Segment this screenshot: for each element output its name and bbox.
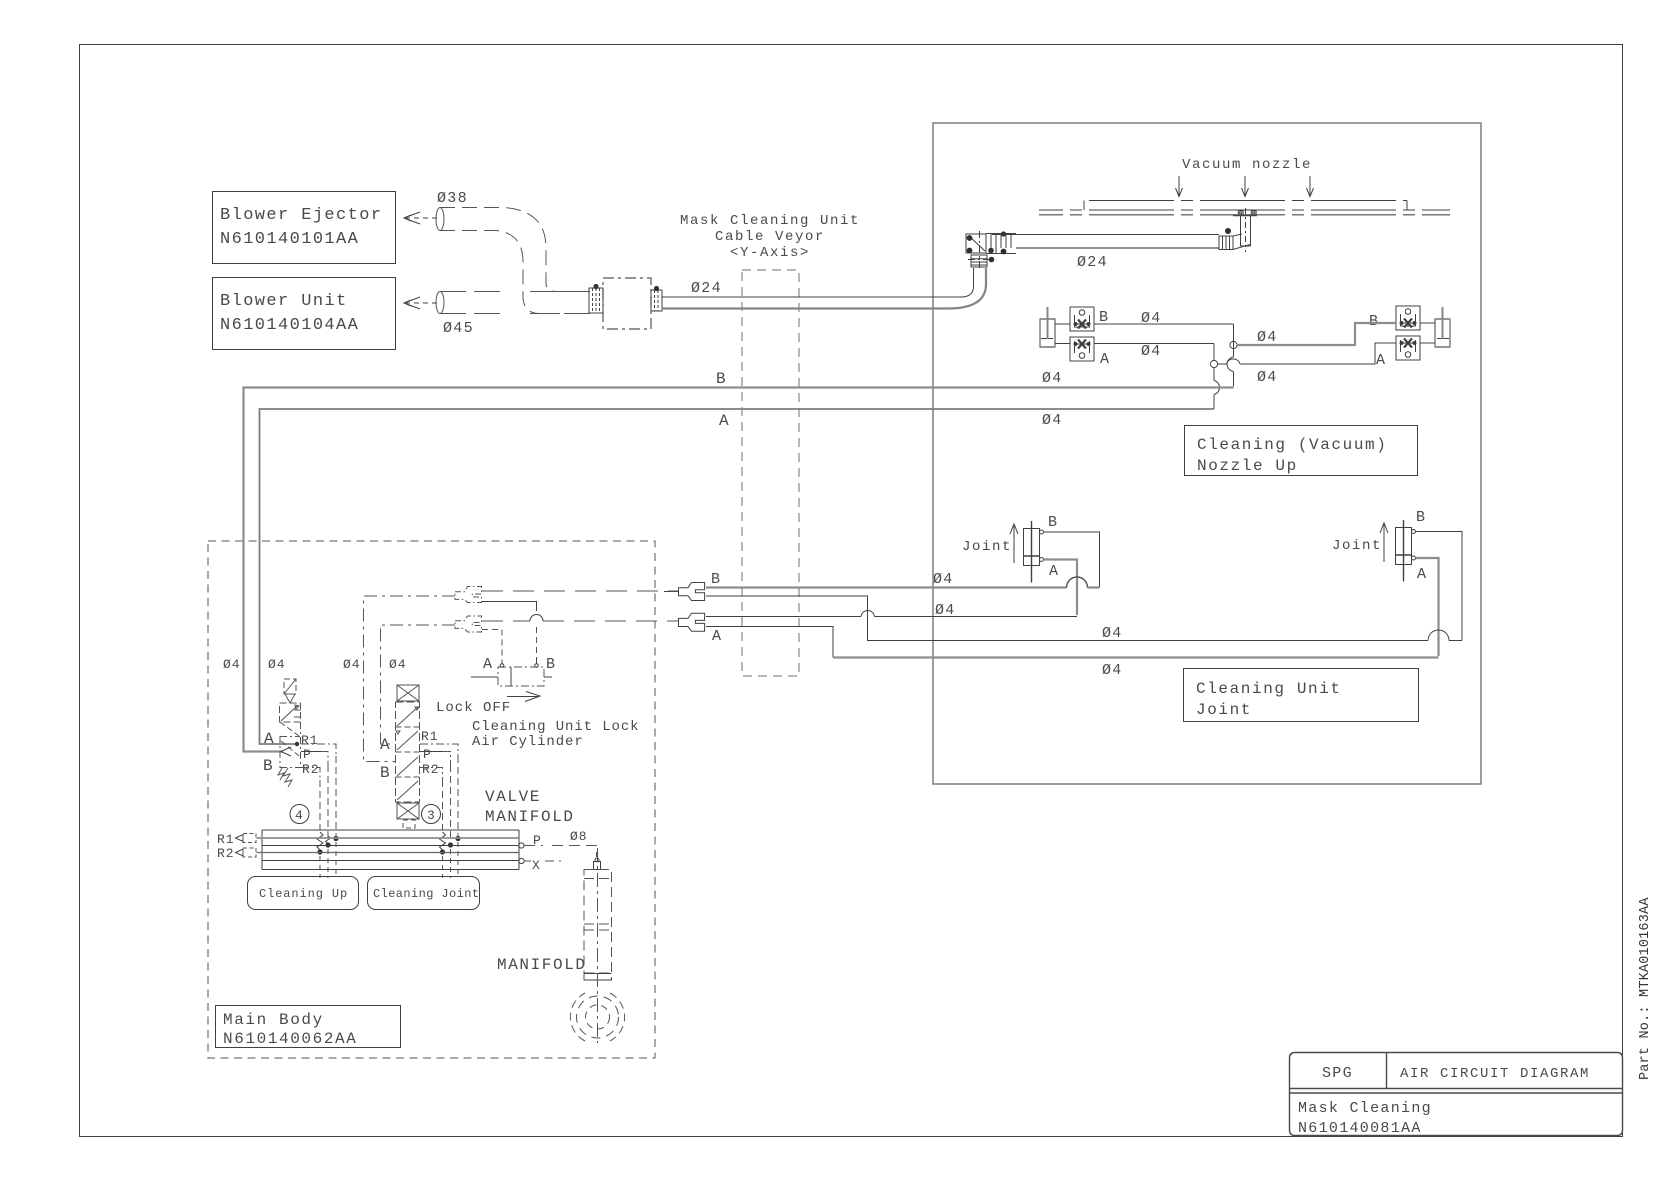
arrow to blower unit (406, 302, 437, 304)
hop of A link over B vertical (1227, 359, 1241, 364)
D4 link to right A controller (1218, 343, 1396, 364)
svg-text:Ø4: Ø4 (268, 657, 286, 672)
bus B (thick) (244, 388, 1234, 752)
wire B-left controller to bus (1094, 324, 1234, 387)
node at valve4 A (295, 742, 299, 746)
svg-text:R2: R2 (217, 846, 235, 861)
svg-text:Ø4: Ø4 (343, 657, 361, 672)
lock direction arrow (507, 692, 540, 702)
svg-text:N610140081AA: N610140081AA (1298, 1120, 1422, 1137)
node on B link (1230, 341, 1237, 348)
svg-text:Cable Veyor: Cable Veyor (715, 229, 825, 245)
svg-text:A: A (483, 656, 493, 673)
Cleaning Up label box (248, 877, 359, 910)
svg-text:AIR CIRCUIT DIAGRAM: AIR CIRCUIT DIAGRAM (1400, 1066, 1590, 1082)
joint1 up arrow (1010, 524, 1018, 563)
Cleaning Unit Joint label box (1184, 669, 1419, 722)
speed controller B left (1070, 307, 1094, 331)
wire A-left controller to bus (1094, 344, 1214, 410)
svg-text:4: 4 (295, 808, 304, 823)
svg-text:Ø4: Ø4 (389, 657, 407, 672)
svg-text:Ø45: Ø45 (443, 320, 474, 337)
P tube dash to manifold assy (524, 846, 597, 858)
svg-text:Part No.: MTKA010163AA: Part No.: MTKA010163AA (1638, 897, 1653, 1080)
svg-text:R1: R1 (301, 733, 319, 748)
Cleaning Joint label box (368, 877, 480, 910)
svg-text:Ø24: Ø24 (691, 280, 722, 297)
svg-text:Air Cylinder: Air Cylinder (472, 734, 584, 750)
valve4 B port dashdot (280, 767, 300, 769)
svg-text:Mask Cleaning Unit: Mask Cleaning Unit (680, 213, 860, 229)
joint2 B wire (1416, 532, 1463, 641)
svg-text:A: A (1417, 566, 1427, 583)
blower ejector hose D38 (436, 208, 444, 231)
svg-text:N610140062AA: N610140062AA (223, 1030, 357, 1048)
svg-text:Joint: Joint (1332, 538, 1382, 554)
circled 3 (422, 805, 441, 824)
X port (519, 858, 524, 863)
lock cylinder A line (482, 630, 502, 665)
cable veyor dash-dot rectangle (742, 270, 799, 676)
manifold mount circles (577, 996, 619, 1038)
muffler R2 (236, 849, 244, 856)
manifold stubs below valve4 (320, 842, 336, 878)
svg-text:A: A (380, 736, 391, 754)
svg-text:Ø4: Ø4 (935, 602, 956, 619)
speed controller A right (1396, 336, 1420, 360)
Cleaning (Vacuum) Nozzle Up label box (1185, 426, 1418, 476)
svg-text:MANIFOLD: MANIFOLD (485, 808, 575, 826)
hop over joint2 A vertical (1428, 630, 1449, 641)
svg-text:Nozzle Up: Nozzle Up (1197, 457, 1298, 475)
node on A link (1210, 360, 1217, 367)
svg-text:Ø4: Ø4 (1042, 370, 1063, 387)
tube valve3-A to fitting2 (381, 625, 456, 744)
joint1 A wire (1044, 560, 1078, 616)
title block (1290, 1053, 1623, 1136)
manifold assy fitting (594, 862, 601, 870)
Blower Ejector label box (213, 192, 396, 264)
nozzle-up cylinder right (1435, 307, 1450, 347)
svg-text:P: P (303, 747, 312, 762)
vacuum nozzle pointer arrows (1176, 176, 1183, 197)
svg-text:Ø8: Ø8 (570, 829, 588, 844)
svg-text:X: X (532, 858, 541, 873)
tube B to joint1 (thick) (706, 586, 1100, 588)
valve4 P line to manifold (301, 751, 321, 753)
svg-text:Cleaning Joint: Cleaning Joint (373, 887, 479, 901)
cylinder stubs right (1420, 323, 1435, 343)
svg-text:Ø4: Ø4 (223, 657, 241, 672)
label Mask Cleaning Unit Cable Veyor (680, 213, 860, 261)
svg-text:Joint: Joint (1196, 701, 1252, 719)
P port (519, 843, 524, 848)
svg-text:P: P (423, 747, 432, 762)
manifold centerline (597, 848, 599, 1043)
valve3 P line to manifold (420, 751, 443, 753)
svg-text:R2: R2 (422, 762, 440, 777)
Main Body label box (216, 1006, 401, 1048)
svg-text:B: B (1416, 509, 1426, 526)
junction left fitting (589, 288, 603, 313)
lock cylinder B line (482, 602, 537, 612)
valve3 R2 line to manifold (420, 768, 443, 781)
svg-text:B: B (1048, 514, 1058, 531)
svg-text:R1: R1 (217, 832, 235, 847)
svg-text:B: B (1369, 313, 1379, 330)
svg-text:B: B (1099, 309, 1109, 326)
svg-text:B: B (711, 571, 721, 588)
svg-text:Cleaning (Vacuum): Cleaning (Vacuum) (1197, 436, 1387, 454)
hose junction block (603, 278, 651, 329)
arm end fitting (1219, 234, 1250, 250)
svg-text:Blower Ejector: Blower Ejector (220, 206, 382, 225)
cable fitting 2 (dash-dot) (455, 616, 482, 632)
manifold assembly body (584, 870, 612, 981)
speed controller A left (1070, 337, 1094, 361)
main body dashed boundary (208, 541, 655, 1058)
valve4 R1 line to manifold (301, 744, 336, 756)
hop over B bus (1214, 381, 1220, 395)
svg-text:A: A (1376, 352, 1386, 369)
junction right fitting (651, 290, 662, 311)
valve4 A port dashdot (280, 736, 300, 738)
svg-text:R2: R2 (302, 762, 320, 777)
svg-text:B: B (716, 370, 727, 388)
nozzle arm tube (992, 234, 1219, 236)
tube valve3-B to fitting1 (364, 596, 456, 762)
svg-text:Cleaning Unit: Cleaning Unit (1196, 680, 1342, 698)
joint2 up arrow (1380, 523, 1388, 562)
tube B to joint2 (706, 596, 1462, 641)
svg-text:R1: R1 (421, 729, 439, 744)
vacuum nozzle bar (1084, 201, 1407, 211)
svg-text:Mask Cleaning: Mask Cleaning (1298, 1100, 1432, 1117)
blower unit hose D45 (436, 292, 444, 314)
svg-text:Lock OFF: Lock OFF (436, 700, 511, 716)
svg-text:N610140101AA: N610140101AA (220, 230, 359, 249)
svg-text:A: A (712, 628, 722, 645)
svg-text:SPG: SPG (1322, 1065, 1353, 1082)
joint1 B wire (1044, 532, 1100, 588)
svg-text:Vacuum nozzle: Vacuum nozzle (1182, 157, 1312, 173)
cleaning unit lock air cylinder (498, 667, 544, 686)
hop over B2 drop (861, 611, 875, 617)
valve4 R2 line to manifold (301, 768, 320, 781)
quick coupler B (679, 583, 705, 601)
speed controller B right (1396, 306, 1420, 330)
hop over lock B drop (530, 615, 543, 621)
svg-text:Ø4: Ø4 (933, 571, 954, 588)
svg-text:Ø4: Ø4 (1257, 329, 1278, 346)
svg-text:B: B (546, 656, 556, 673)
svg-text:Joint: Joint (962, 539, 1012, 555)
cable fitting 1 (dash-dot) (455, 587, 482, 603)
D4 link to right B controller (1237, 323, 1396, 345)
squiggle valve3 R2 (440, 832, 446, 850)
arrow to blower ejector (406, 217, 437, 219)
svg-text:A: A (1049, 563, 1059, 580)
svg-text:Ø4: Ø4 (1257, 369, 1278, 386)
nozzle-up cylinder left (1040, 307, 1055, 347)
svg-text:B: B (263, 757, 274, 775)
tube fitting1 to coupler B (482, 590, 679, 592)
joint cylinder 2 (1396, 520, 1412, 582)
quick coupler A (679, 613, 705, 631)
svg-text:Ø24: Ø24 (1077, 254, 1108, 271)
svg-text:Ø4: Ø4 (1102, 662, 1123, 679)
Blower Unit label box (213, 278, 396, 350)
tube A to joint1 (706, 616, 1077, 618)
svg-text:N610140104AA: N610140104AA (220, 316, 359, 335)
solenoid valve 4 (278, 679, 301, 787)
hop over A link (1227, 357, 1233, 372)
arrowhead into valve4 B (281, 747, 291, 756)
joint2 A wire (1416, 558, 1439, 656)
nozzle arm elbow assembly (966, 231, 1016, 271)
valve3 R1 line to manifold (420, 744, 458, 756)
D24 pipe run to nozzle arm (662, 268, 974, 297)
nozzle bracket (1233, 208, 1257, 252)
manifold stubs below valve3 (443, 842, 459, 878)
solenoid valve 3 (396, 685, 420, 828)
svg-text:MANIFOLD: MANIFOLD (497, 956, 587, 974)
squiggle P (326, 836, 331, 847)
cylinder to controller stubs left (1055, 324, 1070, 344)
tube fitting2 to coupler A (482, 620, 679, 622)
svg-text:A: A (1100, 351, 1110, 368)
svg-text:3: 3 (427, 808, 436, 823)
svg-text:B: B (380, 764, 391, 782)
bus A (260, 409, 1215, 744)
valve manifold block (262, 830, 519, 870)
svg-text:VALVE: VALVE (485, 788, 541, 806)
muffler R1 (236, 835, 244, 842)
svg-text:Main Body: Main Body (223, 1011, 324, 1029)
circled 4 (290, 805, 309, 824)
tube A to joint2 (706, 627, 833, 658)
svg-text:Cleaning Unit Lock: Cleaning Unit Lock (472, 719, 639, 735)
cleaning unit boundary box (933, 123, 1481, 784)
svg-text:<Y-Axis>: <Y-Axis> (730, 245, 810, 261)
hop over joint1 A drop (1067, 577, 1088, 588)
svg-text:Cleaning Up: Cleaning Up (259, 887, 348, 901)
svg-text:A: A (264, 730, 275, 748)
svg-text:Ø4: Ø4 (1141, 343, 1162, 360)
svg-text:Ø4: Ø4 (1042, 412, 1063, 429)
squiggle R2 (317, 832, 323, 850)
svg-text:A: A (719, 412, 730, 430)
svg-text:Ø4: Ø4 (1102, 625, 1123, 642)
svg-text:Ø38: Ø38 (437, 190, 468, 207)
X tube dash (524, 860, 561, 862)
svg-text:Blower Unit: Blower Unit (220, 292, 348, 311)
joint cylinder 1 (1024, 521, 1040, 583)
